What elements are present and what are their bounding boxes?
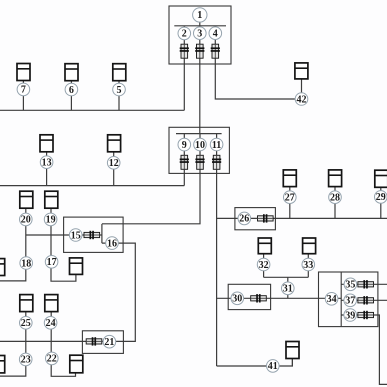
wire box2 header line — [176, 133, 222, 135]
wire fuse41 stub — [291, 359, 293, 366]
fuse above node28 — [329, 170, 342, 187]
wire col20 node18 to left — [0, 208, 26, 281]
box unit5 (node 26) — [235, 208, 276, 230]
svg-text:32: 32 — [259, 260, 269, 271]
node 21 — [103, 335, 116, 348]
wire fuse28 drop — [334, 187, 336, 219]
fuse above node29 — [375, 170, 387, 187]
svg-text:26: 26 — [239, 214, 249, 225]
wire fuse5 drop — [118, 81, 120, 111]
node 29 — [375, 191, 387, 204]
svg-text:33: 33 — [303, 260, 313, 271]
svg-text:11: 11 — [212, 140, 221, 151]
node 1 — [193, 8, 207, 22]
connector right of node26 — [258, 214, 274, 222]
wire bus1 — [0, 109, 184, 111]
node 20 — [20, 213, 33, 226]
node 5 — [113, 83, 126, 96]
wire col19 node17 to fusebox — [51, 208, 76, 281]
svg-text:5: 5 — [117, 85, 122, 96]
fuse above node25 — [20, 295, 33, 312]
svg-text:35: 35 — [345, 280, 355, 291]
node 30 — [231, 292, 244, 305]
fuse above node19 — [45, 191, 58, 208]
wire join 32-33 — [264, 276, 309, 278]
node 39 — [344, 309, 357, 322]
svg-text:39: 39 — [345, 310, 355, 321]
fuse right of node22 — [70, 355, 83, 373]
wire col4 to node42 — [215, 26, 301, 99]
wire junction bar in box16 — [101, 224, 103, 243]
node 22 — [46, 352, 59, 365]
node 37 — [344, 294, 357, 307]
svg-text:24: 24 — [46, 318, 56, 329]
fuse above node7 — [17, 64, 30, 81]
wire box1 header line — [174, 25, 226, 27]
wire box7 divider — [340, 273, 342, 327]
node 34 — [325, 293, 338, 306]
node 10 — [194, 138, 207, 151]
svg-text:21: 21 — [104, 337, 114, 348]
svg-text:2: 2 — [182, 29, 187, 40]
node 7 — [17, 83, 30, 96]
connector right of node37 — [358, 296, 374, 304]
wire node16 loop to box21 — [102, 243, 135, 341]
node 33 — [302, 258, 315, 271]
svg-text:19: 19 — [46, 215, 56, 226]
fuse above node42 — [295, 63, 308, 79]
box unit1 (nodes 1-4) — [169, 6, 231, 64]
svg-text:22: 22 — [47, 354, 57, 365]
svg-text:6: 6 — [69, 85, 74, 96]
node 2 — [178, 27, 191, 40]
connector right of node35 — [358, 280, 374, 288]
svg-text:13: 13 — [42, 158, 52, 169]
wire mid bus to node34 — [217, 297, 342, 299]
wire col2 down to bus1 — [183, 26, 185, 111]
node 12 — [107, 157, 120, 170]
wire fuse29 drop — [380, 187, 382, 218]
fuse above node6 — [65, 64, 78, 81]
wire node39 row to bottom right — [341, 315, 387, 384]
wire branch to node26 and bus3 — [217, 217, 387, 219]
svg-text:25: 25 — [21, 318, 31, 329]
box unit2 (nodes 9-11) — [169, 127, 229, 173]
wire fuse7 drop — [22, 81, 24, 111]
svg-text:1: 1 — [197, 10, 202, 21]
fuse above node13 — [40, 135, 53, 152]
fuse above node33 — [303, 238, 316, 254]
wire fuse6 drop — [70, 81, 72, 111]
svg-text:23: 23 — [21, 355, 31, 366]
fuse above node24 — [45, 295, 58, 312]
svg-text:10: 10 — [195, 140, 205, 151]
svg-text:41: 41 — [268, 361, 278, 372]
node 18 — [20, 257, 33, 270]
node 42 — [295, 93, 308, 106]
connector right of node39 — [358, 311, 374, 319]
node 17 — [45, 255, 58, 268]
connector below node11 — [212, 155, 221, 169]
connector in box21 — [86, 337, 102, 345]
svg-text:16: 16 — [107, 238, 117, 249]
box unit7 (nodes 34-39) — [319, 272, 378, 327]
wire trunk to node41 and fuse — [217, 359, 293, 367]
node 41 — [267, 360, 280, 373]
wire node37 row — [341, 299, 387, 301]
node 26 — [238, 212, 251, 225]
node 25 — [20, 317, 33, 330]
node 28 — [329, 191, 342, 204]
wire col25 node23 to left — [0, 312, 26, 377]
svg-text:18: 18 — [21, 258, 31, 269]
node 31 — [282, 282, 295, 295]
box unit6 (node 30) — [228, 284, 270, 309]
svg-text:42: 42 — [297, 94, 307, 105]
node 23 — [19, 353, 32, 366]
fuse above node20 — [20, 191, 33, 208]
node 3 — [194, 27, 207, 40]
fuse above node5 — [113, 64, 126, 81]
node 19 — [44, 213, 57, 226]
wire col9 to bus2 — [183, 134, 185, 186]
svg-text:37: 37 — [345, 296, 355, 307]
wire node31 stub — [287, 277, 289, 298]
wire bus2 — [0, 185, 184, 187]
connector below node10 — [195, 155, 204, 169]
wire col3 down to box2 — [199, 26, 201, 134]
node 35 — [344, 278, 357, 291]
connector right of node30 — [251, 294, 267, 302]
fuse above node27 — [283, 170, 296, 187]
connector below node3 — [195, 44, 204, 58]
fuse above node32 — [258, 238, 271, 254]
svg-text:9: 9 — [182, 140, 187, 151]
wire branch to node15 — [26, 234, 102, 236]
box unit3 (nodes 15-16) — [64, 217, 124, 252]
wire trunk col11 — [216, 134, 218, 366]
connector below node2 — [180, 44, 189, 58]
wire node35 row — [341, 283, 387, 285]
node 32 — [257, 258, 270, 271]
wire col10 to box16 — [102, 134, 200, 224]
node 24 — [44, 317, 57, 330]
svg-text:15: 15 — [71, 230, 81, 241]
wire fuse33 drop — [307, 254, 309, 278]
wire fuse42 stub — [301, 79, 303, 99]
node 15 — [69, 229, 82, 242]
fuse above node12 — [108, 135, 121, 152]
node 9 — [178, 138, 191, 151]
node 16 — [106, 237, 119, 250]
svg-text:28: 28 — [330, 193, 340, 204]
wire fuse32 drop — [263, 254, 265, 278]
wire bus4 through box21 — [0, 340, 123, 342]
svg-text:4: 4 — [213, 29, 218, 40]
connector below node4 — [211, 44, 220, 58]
svg-text:34: 34 — [327, 294, 337, 305]
svg-text:30: 30 — [232, 294, 242, 305]
wire fuse13 drop — [46, 152, 48, 186]
wire fuse12 drop — [113, 152, 115, 186]
svg-text:12: 12 — [109, 158, 119, 169]
node 13 — [40, 156, 53, 169]
svg-text:3: 3 — [197, 29, 202, 40]
node 4 — [209, 27, 222, 40]
svg-text:20: 20 — [21, 215, 31, 226]
node 27 — [284, 191, 297, 204]
svg-text:29: 29 — [376, 192, 386, 203]
box unit4 (node 21) — [82, 331, 123, 354]
wire fuse27 drop — [289, 187, 291, 219]
wire node1 stub — [199, 15, 201, 26]
fuse partial left of node18 — [0, 259, 5, 276]
svg-text:27: 27 — [285, 193, 295, 204]
node 11 — [210, 138, 223, 151]
svg-text:7: 7 — [21, 85, 26, 96]
fuse right of node17 — [70, 258, 83, 275]
fuse above node41 — [286, 342, 299, 359]
fuse partial left of node23 — [0, 356, 5, 373]
connector below node9 — [180, 155, 189, 169]
node 6 — [65, 83, 78, 96]
svg-text:17: 17 — [47, 257, 57, 268]
connector right of node15 — [84, 231, 100, 239]
wire col24 node22 to fusebox — [51, 312, 75, 377]
svg-text:31: 31 — [283, 284, 293, 295]
